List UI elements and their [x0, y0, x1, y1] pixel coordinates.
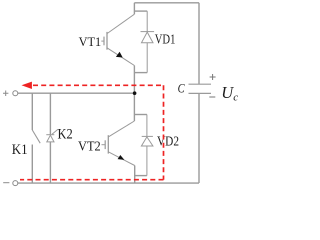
wire right rail lower [198, 94, 200, 183]
red dashed current path right vertical [163, 85, 165, 179]
svg-text:VT2: VT2 [78, 138, 101, 153]
wire VD1 bottom branch [134, 72, 147, 74]
transistor VT2 (IGBT) [102, 121, 135, 166]
wire K1 upper lead [31, 93, 33, 130]
wire K2 upper lead [49, 93, 51, 135]
wire bus riser top [133, 3, 135, 14]
wire K2 lower lead [49, 142, 51, 183]
capacitor polarity minus [209, 96, 215, 98]
emitter arrow VT2 [118, 155, 125, 160]
wire bus bottom section [134, 166, 136, 184]
wire VD2 bottom branch [135, 175, 147, 177]
capacitor C [189, 84, 212, 93]
transistor VT1 (IGBT) [101, 14, 134, 65]
diode VD2 [141, 115, 153, 176]
svg-text:VT1: VT1 [79, 34, 102, 49]
svg-text:C: C [178, 82, 186, 96]
red arrowhead [22, 82, 32, 89]
wire right rail upper [198, 3, 200, 84]
svg-text:Uc: Uc [221, 83, 238, 103]
wire plus-terminal rail [18, 92, 135, 94]
diode VD1 [141, 11, 155, 73]
wire bus mid section [133, 66, 135, 122]
terminal minus [3, 181, 18, 186]
wire K1 lower lead [31, 145, 33, 184]
red dashed current path top with arrow [20, 85, 164, 179]
svg-text:K2: K2 [58, 126, 73, 142]
red dashed current path bottom [20, 179, 164, 181]
thyristor K2 [46, 129, 58, 142]
junction node (plus rail joins bus) [133, 91, 137, 95]
svg-text:VD1: VD1 [155, 32, 176, 47]
wire VD1 top branch [134, 10, 147, 12]
terminal plus [3, 91, 18, 97]
switch K1 [32, 130, 40, 143]
svg-text:VD2: VD2 [157, 134, 179, 149]
capacitor polarity plus [210, 74, 216, 80]
wire bottom rail [18, 182, 199, 184]
svg-text:K1: K1 [12, 142, 28, 158]
wire top rail [134, 2, 199, 4]
emitter arrow VT1 [116, 52, 123, 58]
wire VD2 top branch [134, 114, 147, 116]
